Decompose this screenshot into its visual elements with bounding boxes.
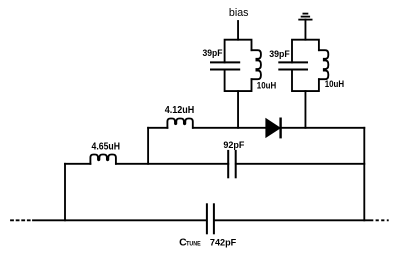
wire: middle rail, left of L 4.65uH (65, 163, 90, 165)
wire: tank 1 bottom lead to upper rail (237, 91, 239, 128)
wire: riser joining upper rail to middle rail (147, 128, 149, 164)
ground (inverted, above tank 2) (299, 14, 311, 20)
svg-text:742pF: 742pF (210, 238, 236, 249)
wire: bottom rail dashed right continuation (376, 219, 389, 221)
inductor 4.12uH (167, 119, 192, 128)
capacitor 39pF (tank 1, plates) (211, 62, 239, 69)
wire: upper rail, diode to right riser (282, 127, 365, 129)
inductor 10uH (tank 2) (319, 50, 328, 79)
tank 2 loop: top, bottom, left side (split by cap) (292, 40, 319, 63)
wire: left riser (64, 164, 66, 221)
svg-text:39pF: 39pF (269, 49, 290, 59)
svg-text:10uH: 10uH (325, 79, 344, 89)
capacitor 92pF (series, middle rail) (228, 151, 236, 177)
svg-text:4.12uH: 4.12uH (165, 105, 195, 116)
capacitor C_TUNE 742pF (series, bottom rail) (207, 204, 214, 233)
wire: middle rail, 4.65uH to 92pF (116, 163, 228, 165)
diode D1 (anode left, cathode right) (266, 119, 281, 138)
wire: ground lead into tank 2 (304, 20, 306, 40)
wire: upper rail, 4.12uH to diode (193, 127, 266, 129)
capacitor 39pF (tank 2, plates) (279, 62, 307, 69)
tank 1 loop: top, bottom, left side (split by cap) (225, 40, 252, 63)
wire: upper rail, riser to L 4.12uH (148, 127, 167, 129)
svg-text:TUNE: TUNE (186, 240, 201, 247)
wire: tank 2 bottom lead to upper rail (304, 91, 306, 128)
svg-text:10uH: 10uH (257, 80, 276, 90)
wire: bottom rail dashed left continuation (10, 219, 31, 221)
wire: bottom rail left segment (33, 219, 206, 221)
svg-text:4.65uH: 4.65uH (92, 142, 121, 153)
svg-text:bias: bias (229, 7, 249, 19)
wire: right riser (363, 128, 365, 221)
svg-text:92pF: 92pF (223, 139, 244, 150)
inductor 4.65uH (90, 155, 116, 164)
svg-text:39pF: 39pF (203, 48, 223, 58)
wire: bias feed lead into tank 1 (237, 21, 239, 40)
wire: bottom rail right segment (215, 219, 373, 221)
wire: middle rail, 92pF to right riser (236, 163, 364, 165)
inductor 10uH (tank 1) (252, 50, 261, 79)
